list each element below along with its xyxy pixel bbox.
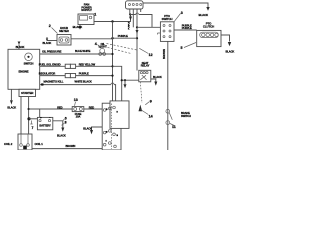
wire starter to battery lug	[28, 97, 30, 135]
svg-text:RED: RED	[57, 105, 62, 109]
wire clutch to ground right	[221, 35, 230, 42]
svg-text:BLACK: BLACK	[57, 134, 66, 138]
seat relay K2	[139, 70, 151, 82]
wire module pin4 stub	[140, 9, 142, 12]
node pto feed	[136, 26, 138, 28]
svg-text:BLACK: BLACK	[83, 126, 92, 130]
svg-text:BLACK: BLACK	[199, 13, 210, 17]
svg-text:BLACK: BLACK	[16, 45, 25, 49]
svg-text:BATTERY: BATTERY	[39, 123, 51, 127]
wire module pin1 down	[129, 9, 131, 15]
terminals	[103, 109, 106, 112]
svg-text:WHITE BLACK: WHITE BLACK	[75, 80, 92, 84]
wire pto switch bottom down (to brake switch line)	[167, 41, 169, 150]
svg-text:PURPLE: PURPLE	[118, 34, 128, 38]
interlock module K1	[126, 1, 144, 9]
svg-text:7: 7	[32, 126, 34, 130]
ground below relay drive	[124, 80, 126, 84]
svg-text:5: 5	[181, 46, 183, 50]
connector row2	[65, 64, 70, 68]
wire module right to top ground	[143, 3, 208, 7]
svg-text:11: 11	[172, 125, 176, 129]
wire row1 oil pressure	[40, 53, 113, 55]
wire row4 magneto kill	[40, 84, 111, 86]
svg-text:13: 13	[74, 98, 78, 102]
svg-text:4: 4	[95, 42, 97, 46]
svg-text:8: 8	[65, 120, 67, 124]
svg-text:SWITCH: SWITCH	[162, 17, 173, 21]
engine ground bottom	[10, 89, 12, 100]
pto switch S1	[160, 22, 174, 42]
connector arrow on pin3	[136, 30, 139, 34]
battery B1	[37, 117, 52, 129]
svg-text:BLACK: BLACK	[7, 105, 16, 109]
svg-text:3: 3	[181, 11, 183, 15]
svg-text:RED YELLOW: RED YELLOW	[79, 62, 96, 66]
brake switch S2	[166, 109, 170, 113]
svg-text:STARTER: STARTER	[21, 91, 33, 95]
wire row3 regulator	[40, 75, 113, 77]
dashed switch line	[111, 104, 113, 150]
wire battery plus up	[39, 109, 41, 117]
wire module pin3 down (long vertical to seat relay)	[136, 9, 138, 71]
battery feed wire	[29, 108, 103, 110]
wire module pin2 down	[132, 9, 134, 27]
node purple jumper	[136, 37, 138, 39]
dashed link lines	[107, 44, 138, 51]
connector row3	[65, 74, 70, 78]
hour meter label	[52, 28, 58, 34]
svg-text:RELAY: RELAY	[141, 64, 150, 68]
pto clutch L1	[197, 30, 221, 46]
svg-text:SWITCH: SWITCH	[24, 61, 34, 65]
wire fan supply to bus	[94, 21, 131, 23]
ground right of clutch	[228, 42, 231, 46]
svg-text:SUPPLY: SUPPLY	[81, 8, 92, 12]
ignition switch outer box	[102, 103, 121, 150]
svg-text:BLACK: BLACK	[43, 41, 52, 45]
svg-text:BLACK: BLACK	[153, 75, 162, 79]
connector arrow on pin1 wire	[129, 17, 132, 21]
node bus/hourmeter	[111, 37, 113, 39]
svg-text:BLACK: BLACK	[226, 50, 235, 54]
svg-text:20A: 20A	[76, 114, 81, 118]
svg-text:PURPLE: PURPLE	[79, 72, 89, 76]
wire relay to black arrow right	[151, 79, 156, 82]
fuse F1	[72, 107, 84, 112]
svg-text:9: 9	[150, 99, 152, 103]
node bus top	[111, 20, 113, 22]
wire row2 to switch top	[113, 66, 122, 103]
ignition switch inner box	[110, 101, 129, 128]
svg-text:1: 1	[94, 13, 96, 17]
node jumper	[129, 13, 131, 15]
svg-text:REGULATOR: REGULATOR	[39, 72, 55, 76]
hour meter M1	[57, 35, 71, 46]
svg-text:FUEL SOL ENOID: FUEL SOL ENOID	[39, 62, 61, 66]
wire starter to coil	[20, 97, 22, 135]
battery negative wire to ground	[53, 121, 63, 128]
svg-text:PURPLE: PURPLE	[182, 26, 192, 30]
wire row2 fuel solenoid	[40, 65, 113, 67]
svg-text:RED: RED	[89, 105, 94, 109]
svg-text:SWITCH: SWITCH	[181, 114, 191, 118]
engine box	[8, 49, 40, 89]
svg-text:BROWN: BROWN	[162, 49, 166, 59]
ground above engine	[18, 45, 20, 50]
svg-text:2: 2	[49, 24, 51, 28]
connector J1 fan power supply	[78, 14, 94, 25]
wire to pto switch	[137, 26, 160, 28]
wire jumper to pto column	[130, 15, 152, 28]
svg-text:COIL 2: COIL 2	[4, 142, 13, 146]
svg-text:14: 14	[149, 115, 153, 119]
wire hour meter right to bus	[71, 38, 113, 40]
ground below fan supply	[79, 25, 81, 27]
oil light DS1	[100, 48, 105, 53]
svg-text:ENGINE: ENGINE	[18, 69, 28, 73]
svg-text:METER: METER	[59, 29, 70, 33]
svg-text:LIGHT: LIGHT	[99, 45, 107, 49]
svg-text:CLUTCH: CLUTCH	[203, 24, 214, 28]
svg-text:OIL PRESSURE: OIL PRESSURE	[42, 50, 62, 54]
svg-text:PURPLE: PURPLE	[129, 21, 131, 29]
coil assembly	[18, 134, 32, 150]
wire hour meter left to black lead	[47, 40, 57, 42]
svg-text:COIL 1: COIL 1	[35, 142, 44, 146]
svg-text:MAGNETO KILL: MAGNETO KILL	[44, 80, 64, 84]
svg-text:BLACK: BLACK	[73, 25, 84, 29]
ground top right	[206, 7, 209, 11]
wire purple jumper	[113, 37, 138, 39]
svg-text:BROWN: BROWN	[66, 144, 76, 148]
battery lug	[27, 117, 30, 120]
relay drive wire	[122, 79, 139, 81]
ignition black ground	[92, 127, 103, 130]
svg-text:BLUE WHITE: BLUE WHITE	[75, 49, 91, 53]
brown wire bottom	[32, 148, 102, 150]
starter box	[19, 89, 36, 96]
engine switch symbol	[25, 53, 33, 61]
vertical bus	[112, 22, 114, 102]
wire pto switch to clutch	[174, 29, 197, 31]
dashed actuator line with arrow	[140, 82, 142, 103]
svg-text:12: 12	[149, 53, 153, 57]
